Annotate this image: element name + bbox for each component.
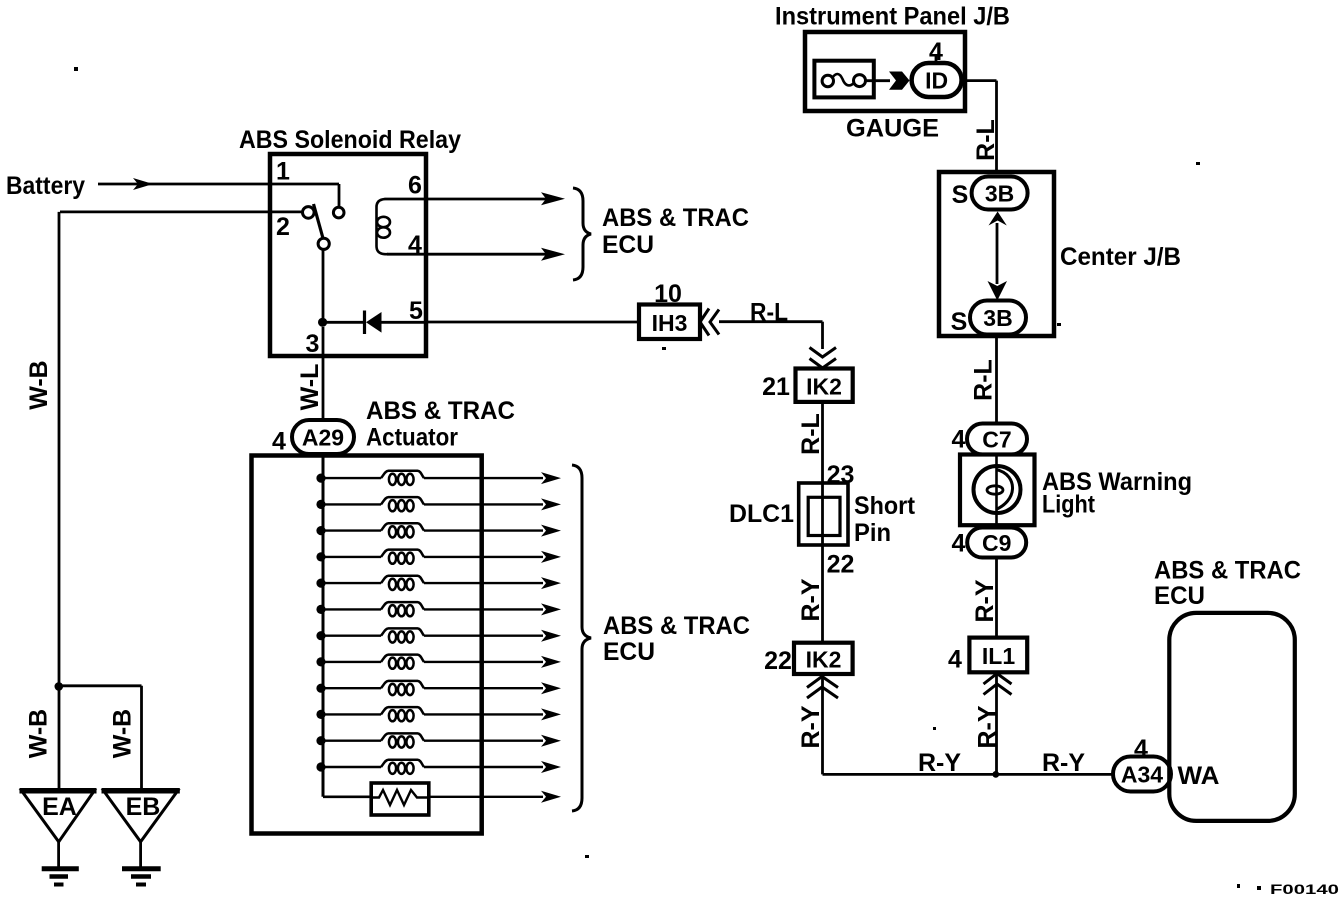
svg-text:A34: A34 (1121, 762, 1163, 788)
solenoid coil 9 (381, 681, 424, 688)
svg-text:EB: EB (126, 793, 161, 821)
svg-text:IH3: IH3 (652, 310, 688, 336)
instrument panel J/B box (805, 32, 965, 111)
junction node R-Y (992, 771, 999, 778)
svg-text:R-Y: R-Y (797, 578, 825, 621)
arrow solenoid 10 to ECU (541, 708, 561, 720)
wire IK2 22 down (821, 674, 824, 774)
wire battery drop to switch contact (338, 184, 341, 207)
solenoid 12 loop at x=410 (406, 763, 413, 774)
svg-text:R-L: R-L (970, 359, 998, 401)
svg-text:W-B: W-B (25, 709, 53, 758)
arrow solenoid 1 to ECU (541, 472, 561, 484)
ground point EB triangle (104, 791, 178, 842)
diode D1 triangle (366, 312, 382, 333)
svg-text:4: 4 (948, 646, 962, 674)
speck (1196, 162, 1200, 165)
wire solenoid 3 to ECU (424, 529, 543, 531)
svg-text:ABS Solenoid Relay: ABS Solenoid Relay (239, 126, 461, 154)
connector IH3 box (639, 305, 700, 340)
svg-text:ABS & TRAC: ABS & TRAC (1154, 557, 1301, 585)
svg-text:F00140: F00140 (1270, 882, 1339, 897)
arrow pin6 to ECU (541, 192, 565, 205)
wire through light box and bulb (995, 455, 998, 528)
svg-text:4: 4 (952, 530, 966, 558)
wire bus to solenoid 4 (321, 556, 381, 558)
svg-text:C7: C7 (982, 427, 1011, 453)
svg-text:Short: Short (854, 492, 916, 520)
svg-text:5: 5 (409, 297, 423, 325)
ground EA bar2 (50, 874, 69, 879)
svg-text:Actuator: Actuator (366, 424, 458, 452)
svg-text:R-Y: R-Y (918, 749, 961, 777)
wire bus to solenoid 11 (321, 740, 381, 742)
arrow solenoid 5 to ECU (541, 577, 561, 589)
ground EA bar1 (42, 866, 79, 871)
actuator internal bus vertical (322, 456, 325, 797)
speck (933, 727, 936, 730)
solenoid 11 loop at x=410 (406, 736, 413, 747)
wire solenoid 10 to ECU (424, 713, 543, 715)
lamp bulb circle (974, 466, 1021, 513)
resistor R1 zigzag (371, 790, 429, 805)
chevron arrows below IL1 (up-pointing) (984, 674, 1012, 695)
solenoid 4 loop at x=410 (406, 553, 413, 564)
wire solenoid 11 to ECU (424, 740, 543, 742)
wire coil bottom to pin4 edge (387, 253, 426, 256)
svg-text:1: 1 (276, 158, 290, 186)
connector 3B oval (top) (972, 177, 1028, 210)
solenoid 1 loop at x=401.5 (398, 474, 405, 485)
svg-text:DLC1: DLC1 (729, 500, 794, 528)
wire pin3 W-L (322, 327, 325, 420)
solenoid 5 loop at x=410 (406, 579, 413, 590)
svg-text:IK2: IK2 (806, 647, 842, 673)
wire center J/B to C7 (995, 336, 998, 424)
switch contact pin1 (right) (333, 207, 344, 218)
fuse right terminal (854, 75, 866, 87)
solenoid 2 loop at x=410 (406, 500, 413, 511)
wire bus to solenoid 8 (321, 661, 381, 663)
wire switch common to node3 (322, 250, 325, 323)
wire bus to solenoid 3 (321, 529, 381, 531)
lamp filament (987, 486, 1003, 494)
connector DLC1 outer box (799, 483, 848, 545)
wire C9 to IL1 (995, 558, 998, 638)
svg-text:R-Y: R-Y (974, 705, 1002, 748)
svg-text:22: 22 (827, 551, 855, 579)
wire bus to solenoid 7 (321, 635, 381, 637)
wire solenoid 6 to ECU (424, 608, 543, 610)
svg-text:ECU: ECU (602, 231, 654, 259)
switch contact common (lower) (318, 238, 329, 249)
wire fuse to arrow (866, 79, 891, 82)
wire bus to solenoid 1 (321, 477, 381, 479)
solenoid 9 loop at x=392.5 (389, 684, 396, 695)
wire horizontal to junction (823, 773, 1114, 776)
ground EB top thick edge (102, 788, 180, 794)
solenoid coil 10 (381, 707, 424, 714)
connector IL1 box (969, 638, 1027, 673)
wire solenoid 7 to ECU (424, 635, 543, 637)
solenoid 12 loop at x=392.5 (389, 763, 396, 774)
solenoid coil 3 (381, 523, 424, 530)
fuse left terminal (822, 75, 833, 86)
svg-text:ABS & TRAC: ABS & TRAC (366, 397, 515, 425)
svg-text:EA: EA (42, 793, 77, 821)
svg-text:6: 6 (408, 172, 422, 200)
speck (1057, 323, 1061, 326)
arrow solenoid 12 to ECU (541, 761, 561, 773)
solenoid 6 loop at x=401.5 (398, 605, 405, 616)
fuse element wave (832, 74, 854, 85)
solenoid 10 loop at x=401.5 (398, 710, 405, 721)
svg-text:GAUGE: GAUGE (846, 115, 939, 143)
wire node3 to diode (327, 321, 363, 324)
svg-text:R-Y: R-Y (1042, 749, 1085, 777)
chevron arrows above IK2 21 (down-pointing) (810, 348, 837, 369)
solenoid coil 8 (381, 655, 424, 662)
solenoid 9 loop at x=410 (406, 684, 413, 695)
solenoid 9 loop at x=401.5 (398, 684, 405, 695)
solenoid 11 loop at x=392.5 (389, 736, 396, 747)
relay coil L (377, 199, 389, 254)
arrow down inside center J/B (988, 281, 1008, 301)
wire IL1 to junction (995, 672, 998, 774)
svg-text:A29: A29 (302, 425, 344, 451)
svg-text:Battery: Battery (6, 172, 85, 200)
connector 3B oval (bottom) (970, 301, 1026, 335)
wire solenoid 8 to ECU (424, 661, 543, 663)
solenoid coil 7 (381, 628, 424, 635)
solenoid coil 12 (381, 760, 424, 767)
arrow fuse to ID (889, 72, 910, 90)
solenoid 4 loop at x=401.5 (398, 553, 405, 564)
arrow solenoid 4 to ECU (541, 551, 561, 563)
connector C9 oval (967, 528, 1026, 558)
svg-text:Light: Light (1042, 491, 1096, 519)
connector A34 oval (1113, 757, 1171, 792)
connector ID oval (912, 63, 962, 97)
wire bus to solenoid 10 (321, 713, 381, 715)
ground point EA triangle (22, 791, 95, 842)
junction dot solenoid row 12 (316, 762, 325, 771)
wire solenoid 12 to ECU (424, 766, 543, 768)
wire pin4 to ECU (426, 253, 546, 256)
speck (1237, 884, 1240, 888)
wire solenoid 1 to ECU (424, 477, 543, 479)
svg-text:3: 3 (306, 330, 320, 358)
solenoid 6 loop at x=392.5 (389, 605, 396, 616)
solenoid coil 6 (381, 602, 424, 609)
junction dot solenoid row 1 (316, 474, 325, 483)
svg-text:21: 21 (762, 373, 790, 401)
wire bus corner to resistor (323, 795, 371, 798)
wire through DLC1 (821, 484, 824, 553)
DLC1 short pin inner box (808, 497, 840, 535)
solenoid 8 loop at x=392.5 (389, 658, 396, 669)
switch lever (314, 204, 324, 239)
arrow solenoid 9 to ECU (541, 682, 561, 694)
ground EB bar3 (136, 883, 146, 887)
svg-text:IK2: IK2 (806, 374, 842, 400)
tick pin4 to ID oval (935, 56, 938, 64)
svg-text:22: 22 (764, 647, 792, 675)
svg-text:S: S (952, 181, 969, 209)
relay coil loop b (377, 227, 390, 237)
wire ID to corner (962, 79, 997, 82)
actuator ABS & TRAC Actuator box (252, 456, 482, 834)
wire solenoid 9 to ECU (424, 687, 543, 689)
wire IH3 to corner (719, 320, 823, 323)
svg-text:S: S (951, 308, 968, 336)
solenoid 10 loop at x=392.5 (389, 710, 396, 721)
solenoid 3 loop at x=410 (406, 526, 413, 537)
svg-text:R-L: R-L (797, 413, 825, 455)
arrow solenoid 11 to ECU (541, 735, 561, 747)
lamp bulb inner arc (996, 470, 1013, 510)
junction node W-B split (55, 682, 64, 691)
connector A29 oval (292, 420, 354, 454)
wire solenoid 2 to ECU (424, 503, 543, 505)
speck (662, 347, 666, 350)
arrow pin4 to ECU (541, 248, 565, 261)
solenoid coil 2 (381, 497, 424, 504)
connector IK2 box (pin 22) (794, 643, 853, 674)
svg-text:ID: ID (925, 68, 948, 94)
svg-text:C9: C9 (982, 530, 1011, 556)
chevron arrows at IH3 (left-pointing) (700, 309, 719, 336)
svg-text:W-L: W-L (296, 364, 324, 411)
ground EA top thick edge (20, 788, 97, 794)
wire pin2 into relay (60, 210, 303, 213)
solenoid coil 11 (381, 733, 424, 740)
solenoid 3 loop at x=401.5 (398, 526, 405, 537)
connector IK2 box (pin 21) (796, 369, 853, 402)
solenoid 10 loop at x=410 (406, 710, 413, 721)
speck (585, 855, 589, 858)
svg-text:R-L: R-L (972, 119, 1000, 161)
junction node pin3 (318, 318, 327, 327)
arrow on battery wire (133, 178, 153, 190)
center J/B box (939, 172, 1054, 336)
ABS warning light box (960, 455, 1035, 526)
arrow solenoid 7 to ECU (541, 630, 561, 642)
solenoid 1 loop at x=392.5 (389, 474, 396, 485)
wire solenoid 5 to ECU (424, 582, 543, 584)
svg-text:IL1: IL1 (982, 643, 1015, 669)
solenoid coil 4 (381, 550, 424, 557)
svg-text:Instrument Panel J/B: Instrument Panel J/B (775, 3, 1010, 31)
arrow solenoid 8 to ECU (541, 656, 561, 668)
arrow solenoid 2 to ECU (541, 498, 561, 510)
speck (1257, 886, 1261, 890)
wire solenoid 4 to ECU (424, 556, 543, 558)
svg-text:ECU: ECU (1154, 582, 1205, 610)
solenoid 7 loop at x=392.5 (389, 631, 396, 642)
brace ABS & TRAC ECU (actuator) (572, 465, 591, 811)
arrow resistor row to ECU (541, 791, 561, 803)
ground EB bar2 (131, 874, 151, 879)
solenoid 1 loop at x=410 (406, 474, 413, 485)
wire bus to solenoid 2 (321, 503, 381, 505)
wire W-B branch to EB (140, 686, 143, 790)
switch contact pin2 (left) (303, 207, 315, 219)
resistor R1 box (371, 783, 429, 815)
solenoid 4 loop at x=392.5 (389, 553, 396, 564)
svg-text:2: 2 (276, 213, 290, 241)
solenoid 8 loop at x=401.5 (398, 658, 405, 669)
junction dot solenoid row 9 (316, 684, 325, 693)
wire IK2 21 to DLC1 (821, 402, 824, 484)
wire down to Center J/B (995, 81, 998, 172)
junction dot solenoid row 10 (316, 710, 325, 719)
svg-text:ABS & TRAC: ABS & TRAC (602, 204, 749, 232)
relay coil loop a (377, 217, 390, 227)
ABS & TRAC ECU rounded box (1169, 613, 1295, 821)
wire corner down to IK2 21 (821, 322, 824, 349)
svg-text:4: 4 (1134, 735, 1148, 763)
relay K1 ABS Solenoid Relay box (270, 154, 426, 356)
svg-text:WA: WA (1178, 762, 1220, 790)
wire coil top to pin6 edge (385, 198, 427, 201)
solenoid 11 loop at x=401.5 (398, 736, 405, 747)
junction dot solenoid row 11 (316, 736, 325, 745)
solenoid 5 loop at x=392.5 (389, 579, 396, 590)
svg-text:4: 4 (952, 426, 966, 454)
solenoid coil 5 (381, 576, 424, 583)
brace ABS & TRAC ECU (relay) (573, 188, 591, 280)
svg-text:ABS & TRAC: ABS & TRAC (603, 612, 750, 640)
svg-text:3B: 3B (983, 305, 1012, 331)
solenoid 6 loop at x=410 (406, 605, 413, 616)
svg-text:Pin: Pin (854, 519, 891, 547)
solenoid coil 1 (381, 471, 424, 478)
wire W-B left vertical (58, 212, 61, 790)
solenoid 3 loop at x=392.5 (389, 526, 396, 537)
solenoid 5 loop at x=401.5 (398, 579, 405, 590)
svg-text:W-B: W-B (25, 360, 53, 409)
svg-text:W-B: W-B (109, 709, 137, 758)
ground EA bar3 (54, 883, 64, 887)
junction dot solenoid row 2 (316, 500, 325, 509)
ground EB stem (139, 842, 142, 867)
junction dot solenoid row 4 (316, 552, 325, 561)
solenoid 7 loop at x=401.5 (398, 631, 405, 642)
wire bus to solenoid 12 (321, 766, 381, 768)
ground EA stem (57, 842, 60, 867)
wire bus to solenoid 9 (321, 687, 381, 689)
junction dot solenoid row 5 (316, 579, 325, 588)
connector C7 oval (967, 424, 1027, 455)
diode D1 cathode bar (363, 311, 366, 335)
arrow solenoid 6 to ECU (541, 603, 561, 615)
wire diode to pin5 edge (381, 321, 426, 324)
svg-text:Center J/B: Center J/B (1060, 243, 1181, 271)
wire bus to solenoid 6 (321, 608, 381, 610)
wire between 3B ovals (996, 223, 999, 284)
svg-text:R-Y: R-Y (797, 705, 825, 748)
solenoid 8 loop at x=410 (406, 658, 413, 669)
junction dot solenoid row 7 (316, 631, 325, 640)
arrow up inside center J/B (989, 212, 1007, 226)
svg-text:ECU: ECU (603, 638, 655, 666)
junction dot solenoid row 6 (316, 605, 325, 614)
wire bus to solenoid 5 (321, 582, 381, 584)
wire battery to relay pin 1 (horizontal) (98, 183, 339, 186)
svg-text:R-Y: R-Y (971, 579, 999, 622)
junction dot solenoid row 3 (316, 526, 325, 535)
junction dot solenoid row 8 (316, 657, 325, 666)
speck (74, 67, 78, 71)
wire W-B branch horizontal (59, 684, 142, 687)
fuse GAUGE box (814, 61, 873, 98)
solenoid 12 loop at x=401.5 (398, 763, 405, 774)
wire pin6 to ECU (426, 198, 546, 201)
ground EB bar1 (122, 866, 161, 871)
solenoid 2 loop at x=392.5 (389, 500, 396, 511)
wire resistor to ECU (429, 796, 543, 798)
wire DLC1 to IK2 22 (821, 553, 824, 643)
chevron arrows below IK2 22 (up-pointing) (807, 677, 838, 699)
svg-text:4: 4 (272, 428, 286, 456)
solenoid 2 loop at x=401.5 (398, 500, 405, 511)
arrow solenoid 3 to ECU (541, 525, 561, 537)
solenoid 7 loop at x=410 (406, 631, 413, 642)
wire pin5 to IH3 (426, 321, 639, 324)
svg-text:3B: 3B (985, 181, 1014, 207)
